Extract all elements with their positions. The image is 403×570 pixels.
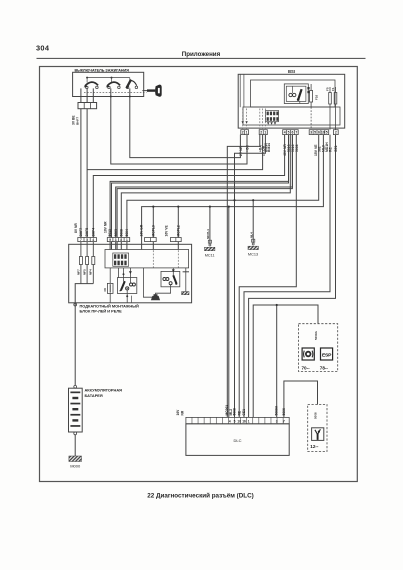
wire 5018 (116, 135, 293, 238)
wire in BSI (310, 107, 312, 130)
svg-text:4: 4 (284, 131, 286, 135)
svg-text:MCPL1: MCPL1 (206, 229, 210, 239)
wires into inner connector (109, 242, 111, 250)
svg-text:4: 4 (229, 420, 231, 424)
svg-text:5: 5 (288, 131, 290, 135)
relay K2 in fusebox (161, 268, 180, 287)
svg-text:ESP: ESP (322, 353, 332, 359)
svg-text:16: 16 (242, 420, 246, 424)
svg-text:MCPL3: MCPL3 (151, 225, 155, 236)
wire +CC (BSI to ignition switch) (111, 97, 247, 165)
svg-text:5013: 5013 (108, 229, 112, 237)
svg-text:CE1: CE1 (242, 409, 246, 416)
wire ML2 (bus B to DLC) (228, 207, 230, 418)
svg-text:5: 5 (86, 238, 88, 242)
svg-text:BM14: BM14 (267, 143, 271, 152)
fusebox grid connector (113, 253, 129, 266)
wire (110, 88, 112, 96)
svg-text:8V NR: 8V NR (74, 223, 78, 233)
svg-text:16V VE: 16V VE (165, 225, 169, 237)
wire to connector symbol (143, 268, 152, 297)
wire 2V OR (BSI to fusebox pin 5) (87, 135, 263, 170)
svg-text:78--: 78-- (320, 365, 329, 370)
svg-text:5006: 5006 (282, 408, 286, 416)
wire CE1 (BSI to DLC) (249, 135, 336, 418)
svg-text:MC13: MC13 (248, 253, 258, 257)
fuse F1 (331, 87, 337, 104)
svg-text:BHF7: BHF7 (79, 228, 83, 237)
svg-text:F6: F6 (103, 288, 107, 292)
wire 5009A (DLC to ABS/ESP) (253, 305, 318, 417)
bus B tap to MCPL2 pin (177, 207, 179, 238)
wire RE (BSI to DLC) (244, 135, 330, 418)
wire 5006 (DLC to airbag) (284, 381, 318, 417)
fuse MF5 (83, 242, 89, 284)
ground M000 (69, 456, 82, 468)
fuse F6 (103, 268, 113, 303)
fusebox (under-hood relay unit) box (69, 244, 192, 302)
fusebox internal ground (182, 268, 189, 295)
svg-text:F1: F1 (331, 87, 335, 91)
svg-text:BSI: BSI (288, 69, 295, 74)
ignition switch box (73, 72, 144, 96)
wire 5013 (110, 135, 288, 238)
splice MC11 (205, 206, 215, 258)
svg-text:MCPL2: MCPL2 (176, 225, 180, 236)
fusebox pin labels (74, 221, 180, 237)
wire BHF5 (86, 109, 88, 238)
svg-text:MF4: MF4 (89, 269, 93, 275)
DLC wire labels (176, 405, 286, 416)
wire BHF7 (80, 109, 82, 238)
svg-text:DLC: DLC (233, 438, 241, 443)
svg-text:3: 3 (276, 420, 278, 424)
fusebox internal bus (75, 284, 93, 303)
svg-text:RE: RE (238, 410, 242, 415)
header rule (37, 57, 366, 59)
wire fusebox to battery (74, 303, 76, 386)
svg-text:2: 2 (242, 131, 244, 135)
svg-text:5: 5 (314, 131, 316, 135)
relay in BSI (284, 84, 309, 104)
svg-text:БАТАРЕЯ: БАТАРЕЯ (85, 393, 103, 398)
wire 5013b (112, 135, 289, 238)
wire +BA (BSI to DLC) (227, 135, 259, 418)
bus B tap to MCPL3 pin (152, 207, 154, 238)
wire (92, 97, 94, 103)
DLC box (186, 424, 289, 456)
svg-text:MF7: MF7 (76, 269, 80, 275)
wire 40V NR (BSI to fusebox pin 4) (93, 135, 284, 238)
BSI internal dashed wires (242, 109, 244, 130)
wire (92, 88, 94, 96)
wire (86, 97, 88, 103)
svg-text:7: 7 (295, 131, 297, 135)
svg-text:2: 2 (335, 131, 337, 135)
wire 2V NR (BSI to ignition switch) (130, 97, 241, 158)
svg-text:10: 10 (321, 131, 325, 135)
internal bus (86, 77, 130, 83)
BSI pin row (241, 130, 338, 135)
svg-text:6: 6 (318, 131, 320, 135)
svg-text:1: 1 (126, 238, 128, 242)
svg-text:ВЫКЛЮЧАТЕЛЬ ЗАЖИГАНИЯ: ВЫКЛЮЧАТЕЛЬ ЗАЖИГАНИЯ (75, 68, 130, 72)
bus B wire (3G2) (142, 135, 324, 245)
switch contact (126, 80, 137, 89)
splice MC13 (248, 199, 258, 257)
wire battery to ground (74, 435, 76, 456)
fuse MF4 (89, 242, 95, 284)
wire in BSI (329, 104, 331, 130)
wire BM15 (BSI to DLC) (235, 135, 266, 418)
small connector symbol (151, 285, 171, 300)
svg-text:ПОДКАПОТНЫЙ МОНТАЖНЫЙ: ПОДКАПОТНЫЙ МОНТАЖНЫЙ (80, 303, 140, 308)
svg-text:7: 7 (80, 238, 82, 242)
svg-text:3: 3 (310, 131, 312, 135)
ABS icon 70 (302, 348, 315, 370)
svg-text:ML4: ML4 (249, 232, 253, 238)
svg-text:1: 1 (264, 131, 266, 135)
DLC pin row (186, 417, 289, 423)
svg-text:2: 2 (260, 131, 262, 135)
svg-text:BHF7: BHF7 (76, 117, 80, 125)
fuse F5 (326, 87, 332, 104)
svg-text:8: 8 (120, 238, 122, 242)
svg-text:БЛОК ПР-ЛЕЙ И РЕЛЕ: БЛОК ПР-ЛЕЙ И РЕЛЕ (80, 309, 123, 314)
svg-text:304: 304 (36, 44, 50, 53)
bus A wire (15V VE) (127, 135, 319, 238)
BSI lower connector box (243, 107, 340, 125)
svg-text:M000: M000 (70, 463, 81, 468)
junction bus A / MC2 (233, 199, 235, 201)
ignition key (142, 85, 161, 97)
svg-text:5: 5 (234, 420, 236, 424)
wire (80, 97, 82, 103)
dashed wires in fusebox (152, 250, 154, 267)
svg-text:70--: 70-- (302, 365, 311, 370)
fuse MF7 (76, 242, 82, 284)
svg-text:9: 9 (109, 238, 111, 242)
fusebox label (74, 303, 77, 306)
svg-text:F5: F5 (326, 87, 330, 91)
switch contact (84, 82, 99, 89)
wire (129, 88, 131, 96)
svg-text:10: 10 (237, 420, 241, 424)
svg-text:5009A: 5009A (314, 330, 318, 340)
wire 5009A branch (276, 305, 278, 417)
svg-text:5003: 5003 (114, 229, 118, 237)
switch contact (106, 82, 120, 89)
BSI box (238, 74, 345, 128)
mechanical link (dashed) (84, 91, 147, 93)
svg-text:BHF5: BHF5 (85, 228, 89, 237)
svg-text:3: 3 (115, 238, 117, 242)
BSI grid connector (266, 110, 279, 121)
svg-text:16V GR: 16V GR (140, 224, 144, 236)
svg-text:MC11: MC11 (205, 254, 215, 258)
wire 5018b (117, 135, 292, 238)
fuse F16 (310, 84, 319, 107)
fusebox inner connector box (105, 250, 189, 268)
BSI inner upper box (251, 80, 336, 107)
connector arrows (267, 122, 269, 125)
svg-text:5008: 5008 (233, 408, 237, 416)
diagram frame (40, 67, 358, 482)
relay K1 in fusebox (118, 268, 137, 303)
svg-text:Приложения: Приложения (182, 51, 221, 58)
battery (69, 385, 83, 434)
svg-text:10V NR: 10V NR (104, 221, 108, 233)
svg-text:MF5: MF5 (83, 269, 87, 275)
svg-text:22 Диагностический разъём (DLC: 22 Диагностический разъём (DLC) (147, 492, 254, 500)
svg-text:1: 1 (246, 131, 248, 135)
svg-text:5009A: 5009A (275, 405, 279, 415)
wire 5008 (BSI to DLC) (239, 135, 296, 418)
BSI wire labels (239, 142, 338, 156)
svg-text:5: 5 (326, 131, 328, 135)
wire ML3 (121, 135, 290, 238)
svg-text:6: 6 (291, 131, 293, 135)
svg-text:5004: 5004 (125, 229, 129, 237)
svg-text:1: 1 (248, 420, 250, 424)
svg-text:7: 7 (283, 420, 285, 424)
wire (80, 88, 82, 96)
svg-text:F16: F16 (315, 94, 319, 100)
wire in BSI (335, 104, 337, 130)
svg-text:5006: 5006 (313, 412, 317, 419)
BSI internal feed wires (239, 74, 241, 107)
ignition connector (78, 103, 97, 109)
wire (86, 88, 88, 96)
ABS/ESP unit (dashed) (299, 324, 338, 372)
airbag icon (310, 428, 324, 449)
wire relay K1 to bottom (131, 296, 133, 303)
fusebox pin row (78, 238, 181, 242)
junction (110, 96, 112, 98)
svg-text:NR: NR (180, 410, 184, 415)
airbag unit 12 (dashed) (308, 405, 327, 452)
svg-text:4: 4 (92, 238, 94, 242)
svg-text:BHF4: BHF4 (91, 228, 95, 237)
svg-text:12--: 12-- (310, 444, 319, 449)
ESP icon 78 (320, 348, 333, 370)
svg-text:5008: 5008 (119, 229, 123, 237)
